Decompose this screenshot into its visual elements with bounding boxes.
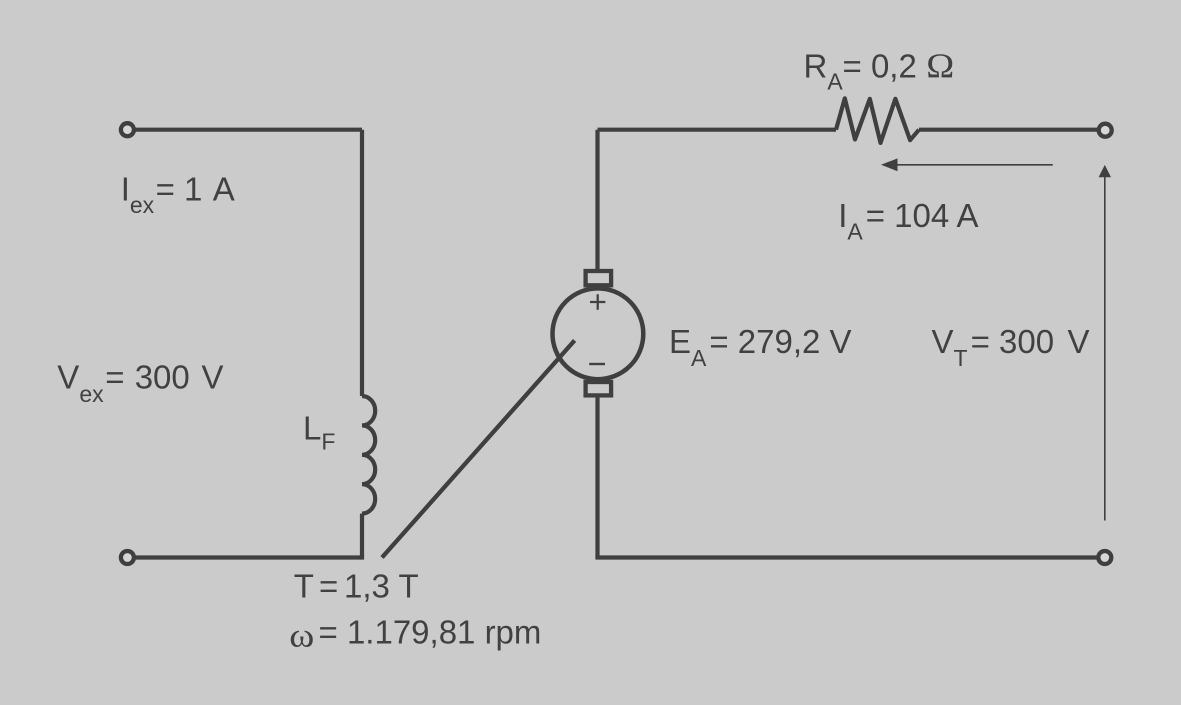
pointer line from labels to motor [382,340,575,557]
wire armature-loop top-left horizontal [598,128,837,132]
wire armature-loop left vertical lower [595,397,599,557]
svg-text:ω: ω [289,617,314,654]
wire armature-loop bottom horizontal [595,555,1100,559]
motor armature circle U1 [553,288,644,379]
motor brush bottom [586,382,612,395]
wire field-loop right vertical lower [360,514,364,558]
terminal bottom-left [121,551,134,564]
motor minus sign [589,363,605,365]
wire field-loop bottom horizontal [131,555,364,559]
wire armature-loop left vertical [595,130,599,269]
motor plus sign [590,294,605,309]
terminal top-right [1099,124,1112,137]
motor brush top [586,271,612,285]
svg-text:Ω: Ω [926,47,954,85]
current arrow IA [881,158,1053,171]
inductor LF [362,396,375,514]
wire field-loop right vertical upper [360,130,364,396]
terminal bottom-right [1098,551,1111,564]
resistor RA [836,98,919,143]
wire field-loop top horizontal [131,128,362,132]
wire armature-loop top-right horizontal [919,128,1100,132]
voltage arrow VT [1099,165,1111,521]
svg-text:= 1.179,81 rpm: = 1.179,81 rpm [319,614,542,651]
terminal top-left [121,123,134,136]
svg-text:T=1,3 T: T=1,3 T [294,568,419,605]
